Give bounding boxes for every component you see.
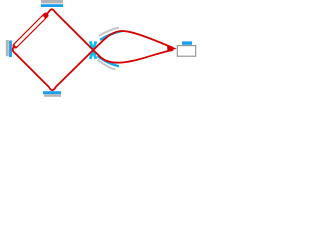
blue marker: right end dash bbox=[182, 41, 192, 44]
gray marker: lower tail outer arc bbox=[98, 60, 116, 70]
gray marker: upper tail outer arc bbox=[99, 28, 119, 36]
red curve: left loop bottom half, crossing, upper tail branch bbox=[13, 31, 174, 90]
blue marker: left vertex bar bbox=[9, 41, 12, 58]
double line: top-left edge (white core with red borders) bbox=[15, 15, 46, 46]
blue marker: crossing X arm 2 bbox=[90, 41, 96, 59]
blue marker: lower tail arc bbox=[98, 56, 120, 66]
white label box at right end bbox=[177, 46, 195, 57]
blue marker: upper tail arc bbox=[100, 31, 122, 40]
gray marker: bottom vertex outer bar bbox=[44, 94, 61, 97]
red curve: lower tail branch, top-right edge, top apex arc bbox=[47, 9, 173, 62]
diagram canvas bbox=[0, 0, 200, 100]
blue marker: top vertex bar bbox=[41, 4, 63, 7]
gray marker: top vertex outer bar bbox=[41, 0, 63, 3]
blue marker: bottom vertex bar bbox=[43, 91, 61, 94]
red arrowhead at tail tip bbox=[167, 45, 177, 51]
gray marker: left vertex outer bar bbox=[6, 40, 9, 56]
blue marker: crossing X arm 1 bbox=[90, 41, 96, 59]
